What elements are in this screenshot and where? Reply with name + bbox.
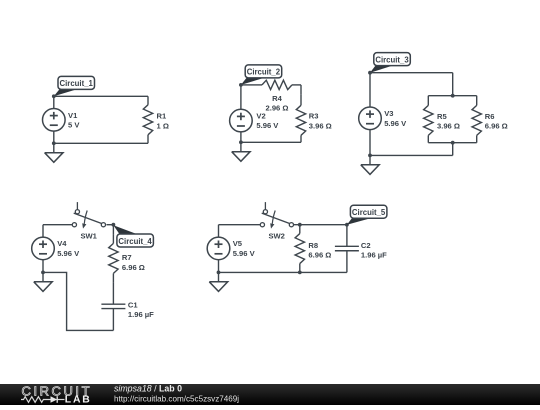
- node junction C2 top: [345, 223, 349, 227]
- wire circuit1 top: [54, 95, 148, 97]
- node junction circuit1 top: [52, 94, 56, 98]
- wire circuit2 right: [300, 85, 302, 94]
- svg-text:R6: R6: [485, 112, 495, 121]
- resistor R3 3.96 Ohm: [300, 94, 302, 105]
- node label Circuit_2: [241, 77, 266, 85]
- node junction circuit3 mid-top: [451, 94, 455, 98]
- wire sw2 to C2 node: [294, 224, 347, 226]
- svg-text:3.96 Ω: 3.96 Ω: [309, 121, 332, 130]
- svg-text:V3: V3: [384, 109, 393, 118]
- node junction circuit2 bottom: [239, 140, 243, 144]
- svg-text:LAB: LAB: [65, 395, 92, 405]
- ground circuit3: [369, 155, 371, 164]
- svg-text:5.96 V: 5.96 V: [57, 249, 80, 258]
- node junction circuit4 top: [112, 223, 116, 227]
- svg-text:R5: R5: [437, 112, 447, 121]
- resistor R4 2.96 Ohm: [253, 84, 262, 86]
- svg-text:1.96 µF: 1.96 µF: [128, 310, 154, 319]
- node junction circuit3 bottom: [368, 154, 372, 158]
- svg-text:1.96 µF: 1.96 µF: [361, 251, 387, 260]
- svg-text:Circuit_3: Circuit_3: [375, 55, 409, 64]
- svg-text:R8: R8: [308, 241, 318, 250]
- capacitor C2 1.96 uF: [346, 225, 348, 247]
- wire circuit4 top: [43, 224, 72, 226]
- node label Circuit_5: [347, 218, 371, 225]
- svg-text:R7: R7: [122, 253, 132, 262]
- svg-text:SW1: SW1: [80, 231, 97, 240]
- node junction R8 bottom: [298, 271, 302, 275]
- ground circuit4: [42, 272, 44, 281]
- switch SW2: [264, 202, 266, 209]
- svg-text:6.96 Ω: 6.96 Ω: [485, 122, 508, 131]
- svg-text:3.96 Ω: 3.96 Ω: [437, 122, 460, 131]
- voltage source V2 5.96 V: [240, 85, 242, 110]
- ground circuit5: [218, 272, 220, 281]
- svg-text:C1: C1: [128, 300, 138, 309]
- node junction circuit1 bottom: [52, 141, 56, 145]
- svg-text:simpsa18 / Lab 0: simpsa18 / Lab 0: [114, 383, 182, 393]
- node junction circuit3 top: [368, 71, 372, 75]
- voltage source V4 5.96 V: [42, 225, 44, 238]
- node junction circuit5 bottom: [217, 271, 221, 275]
- wire sw1 to node: [107, 224, 114, 226]
- ground circuit1: [53, 143, 55, 152]
- svg-text:V1: V1: [68, 111, 78, 120]
- voltage source V5 5.96 V: [218, 225, 220, 238]
- svg-text:SW2: SW2: [268, 231, 284, 240]
- node label Circuit_3: [370, 65, 395, 73]
- resistor R1 1 Ohm: [147, 96, 149, 105]
- wire circuit3 parallel top: [428, 95, 476, 97]
- svg-text:V2: V2: [256, 111, 265, 120]
- wire circuit5 top: [219, 224, 261, 226]
- svg-text:5.96 V: 5.96 V: [256, 121, 279, 130]
- svg-text:R3: R3: [309, 112, 319, 121]
- wire circuit2 bottom: [241, 141, 301, 143]
- svg-text:C2: C2: [361, 241, 371, 250]
- svg-text:5.96 V: 5.96 V: [384, 119, 407, 128]
- wire circuit2 node to R4: [241, 84, 253, 86]
- svg-text:2.96 Ω: 2.96 Ω: [266, 104, 289, 113]
- svg-text:6.96 Ω: 6.96 Ω: [308, 251, 331, 260]
- wire circuit3 bottom: [452, 143, 454, 156]
- svg-text:1 Ω: 1 Ω: [157, 121, 169, 130]
- resistor R6 6.96 Ohm: [476, 96, 478, 106]
- node label Circuit_4: [113, 225, 139, 235]
- resistor R7 6.96 Ohm: [112, 234, 114, 243]
- voltage source V3 5.96 V: [369, 73, 371, 108]
- resistor R8 6.96 Ohm: [299, 225, 301, 234]
- svg-text:http://circuitlab.com/c5c5zsvz: http://circuitlab.com/c5c5zsvz7469j: [114, 395, 239, 404]
- svg-text:Circuit_2: Circuit_2: [247, 68, 281, 77]
- node label Circuit_1: [54, 89, 79, 97]
- svg-text:V4: V4: [57, 239, 67, 248]
- wire circuit1 bottom: [54, 142, 148, 144]
- wire node to R7: [112, 225, 114, 235]
- node junction circuit2 top: [239, 83, 243, 87]
- svg-text:6.96 Ω: 6.96 Ω: [122, 263, 145, 272]
- logo diode: [51, 396, 58, 402]
- svg-text:5.96 V: 5.96 V: [233, 249, 256, 258]
- svg-text:Circuit_1: Circuit_1: [60, 79, 94, 88]
- svg-text:Circuit_4: Circuit_4: [118, 237, 152, 246]
- node junction circuit3 mid-bottom: [451, 141, 455, 145]
- capacitor C1 1.96 uF: [112, 282, 114, 304]
- logo resistor zigzag: [21, 397, 51, 403]
- resistor R5 3.96 Ohm: [427, 96, 429, 106]
- ground circuit2: [240, 142, 242, 151]
- switch SW1: [76, 202, 78, 209]
- node junction circuit4 bottom: [41, 271, 45, 275]
- svg-text:V5: V5: [233, 239, 243, 248]
- voltage source V1 5 V: [53, 96, 55, 109]
- wire circuit5 bottom: [219, 271, 347, 273]
- node junction R8 top: [298, 223, 302, 227]
- svg-text:Circuit_5: Circuit_5: [352, 208, 386, 217]
- svg-text:R1: R1: [157, 112, 167, 121]
- wire circuit3 top: [370, 72, 453, 74]
- svg-text:R4: R4: [272, 94, 282, 103]
- wire circuit4 return: [43, 272, 113, 330]
- wire circuit3 parallel bottom: [428, 142, 476, 144]
- svg-text:5 V: 5 V: [68, 121, 80, 130]
